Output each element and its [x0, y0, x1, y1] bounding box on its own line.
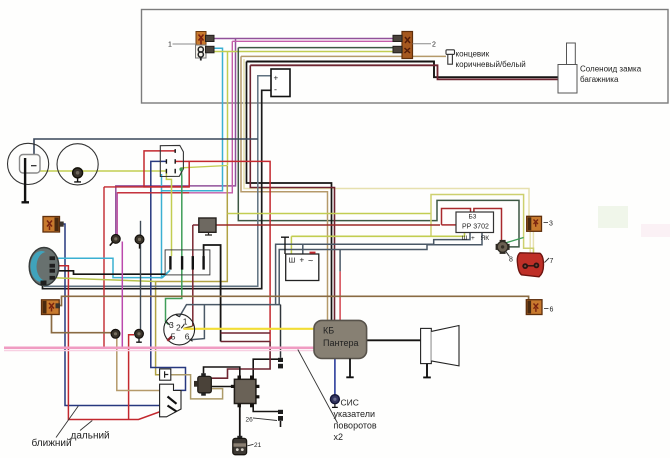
connector 3 label dash — [544, 222, 549, 224]
spark plug — [233, 436, 247, 455]
wire red drop into KB — [339, 271, 341, 320]
round connector 8 — [496, 240, 510, 254]
wire black KB to horn speaker — [367, 339, 421, 341]
wire black solenoid pair — [247, 62, 559, 78]
wire purple vertical drop — [116, 39, 236, 235]
svg-text:6: 6 — [185, 332, 190, 342]
wire maroon bundle drop — [250, 65, 334, 320]
wire red vertical to pink junction — [103, 187, 105, 348]
wire black CDI lower to connector 26 — [253, 404, 280, 412]
wire slate ignition terminal 6 — [190, 305, 204, 340]
wire pink thick turn signal feed — [4, 346, 314, 349]
wire cream pair b — [532, 231, 534, 253]
wire maroon rectifier box feed — [193, 224, 199, 226]
inline connector 26a — [278, 358, 283, 369]
wire yellow-green regulator loop — [431, 195, 534, 254]
wire black fuse mark 4 riser — [204, 245, 221, 342]
wire black bundle drop — [247, 62, 332, 321]
wire slate node2 to bulb 2 — [140, 244, 142, 330]
headlamp ground lead — [22, 158, 30, 202]
wire slate down to inline connector and CDI — [280, 305, 282, 358]
svg-text:СИС: СИС — [341, 398, 359, 408]
spark plug pointer — [248, 444, 254, 446]
wire slate branch to generator plus — [302, 244, 304, 254]
wire brown to indicator bulb 1 — [52, 315, 112, 333]
connector 26 pointer — [253, 418, 277, 421]
junction node 1 — [110, 235, 120, 246]
wire tan kill switch loop — [171, 375, 223, 399]
svg-text:КБ: КБ — [323, 326, 334, 336]
wire yellow generator Sh stub — [290, 236, 292, 254]
wire yellow generator Sh — [291, 233, 464, 237]
svg-text:~: ~ — [308, 256, 313, 266]
wire yellow-green drop to headlamp — [227, 52, 229, 166]
svg-text:багажника: багажника — [580, 75, 619, 84]
wire magenta node to pink junction — [121, 242, 123, 348]
fuse block box — [165, 250, 210, 275]
ignition switch circle — [164, 314, 195, 345]
svg-text:3: 3 — [169, 320, 174, 330]
svg-text:5: 5 — [171, 332, 176, 342]
right connector 2 body — [402, 32, 413, 59]
svg-text:Соленоид замка: Соленоид замка — [580, 65, 642, 74]
rectifier gray box — [199, 218, 216, 235]
pointer line to pink wire — [298, 350, 338, 424]
headlight plug shape — [160, 384, 181, 417]
connector 1 lead line — [173, 43, 197, 45]
wire cyan lower branch to fuse block — [162, 191, 171, 278]
wire blue KB to SIS lamp — [334, 359, 336, 396]
plug contact stroke 1 — [168, 397, 177, 404]
svg-text:коричневый/белый: коричневый/белый — [456, 60, 526, 69]
wire black stub below connector 26 — [280, 421, 282, 427]
wire gray battery positive — [45, 76, 272, 287]
junction node 2 — [135, 235, 144, 249]
wire pink drop to node1 — [117, 41, 232, 234]
wire black battery negative — [43, 90, 272, 288]
horn speaker rect — [421, 328, 432, 363]
orange connector top-left — [43, 217, 64, 233]
wire red regulator corner to B3 — [442, 209, 471, 225]
enclosure box (handlebar harness) — [142, 10, 669, 104]
svg-text:+: + — [274, 74, 279, 83]
wire black coil top feed — [204, 367, 240, 379]
connector 2 pins — [393, 35, 402, 41]
wire slate regulator Ya run — [276, 233, 470, 305]
inline connector 26b — [278, 410, 283, 421]
svg-text:ЯК: ЯК — [481, 235, 490, 242]
svg-text:ближний: ближний — [32, 437, 72, 449]
generator red stub — [310, 252, 316, 254]
wire slate branch to KB — [339, 250, 341, 272]
wire navy low beam — [64, 224, 160, 406]
wire black CDI top feed — [253, 359, 280, 379]
wire yellow-green headlamp run — [40, 170, 166, 172]
regulator pin labels — [462, 235, 490, 242]
svg-text:Б3: Б3 — [469, 214, 477, 221]
wire black from headlamp shell — [53, 271, 165, 274]
orange connector 3 — [527, 216, 542, 231]
parking lamp bulb — [73, 168, 83, 182]
fuse mark 4 — [202, 256, 204, 270]
wire dark slate to headlight bulb — [34, 139, 258, 156]
wire navy dimmer feed — [151, 161, 186, 390]
scan artifact tint 2 — [641, 224, 670, 237]
svg-text:8: 8 — [509, 257, 513, 264]
wire pale yellow vertical to mustard run — [156, 166, 228, 375]
wire red into dimmer right — [175, 160, 189, 162]
connector 6 label dash — [544, 308, 549, 310]
indicator bulb 2 — [135, 329, 144, 342]
component 7 pointer — [545, 258, 550, 263]
wire cyan from headlamp shell — [53, 258, 170, 277]
connector 8 pointer — [506, 251, 510, 256]
generator ground tick — [281, 237, 289, 254]
horn ground — [423, 364, 431, 378]
KB Pantera control unit — [314, 320, 367, 358]
plug contact stroke 2 — [168, 406, 177, 412]
indicator bulb 1 — [111, 329, 120, 338]
wire red branch to indicator bulb — [129, 335, 134, 420]
wire maroon solenoid — [250, 65, 558, 79]
kill switch small box — [160, 369, 171, 380]
headlamp shell — [29, 248, 59, 286]
regulator PP3702 box — [456, 212, 494, 233]
ignition terminal marks — [166, 315, 192, 342]
svg-text:указатели: указатели — [334, 409, 375, 419]
KB ground pin — [346, 359, 353, 378]
limit switch symbol — [446, 50, 455, 64]
wire yellow-green dimmer to fuse — [166, 173, 171, 256]
headlamp bulb symbol — [20, 155, 41, 174]
wire yellow ignition to KB — [183, 328, 314, 330]
svg-text:1: 1 — [183, 317, 188, 327]
wire yellow-green connector1 to connector2 — [214, 51, 394, 53]
wire green diagonal into connector 8 — [506, 238, 524, 243]
wire dark green (bundle to regulator and connector 8) — [238, 47, 393, 49]
svg-text:7: 7 — [550, 258, 554, 265]
SIS indicator lamp — [330, 395, 339, 408]
wire red B3 to connector 8 — [474, 209, 502, 242]
svg-text:-: - — [274, 85, 277, 95]
wire red into regulator left — [442, 224, 457, 226]
svg-text:РР 3702: РР 3702 — [462, 224, 489, 231]
trunk solenoid symbol — [558, 43, 577, 93]
svg-text:Пантера: Пантера — [323, 338, 358, 348]
wire brown long run to connector 6 — [59, 296, 529, 305]
wire maroon vertical through fuse mark — [192, 225, 194, 326]
orange connector bottom-left — [42, 300, 61, 315]
wire pink light echo — [4, 350, 314, 352]
wire red box around dimmer switch — [144, 151, 270, 342]
generator terminal box — [286, 254, 319, 281]
fuse mark 3 — [192, 256, 194, 270]
wire cyan from connector 1 — [162, 48, 223, 190]
wire maroon upper link — [221, 332, 271, 334]
svg-text:+: + — [471, 235, 475, 242]
parking lamp circle 2 — [57, 144, 98, 185]
battery box — [271, 69, 290, 97]
wire pink (bundle) — [232, 40, 393, 42]
wire slate node2 riser — [140, 221, 142, 235]
wire tan indicator bulb drop to plug — [117, 338, 160, 390]
CDI unit — [231, 376, 260, 408]
svg-text:1: 1 — [168, 42, 172, 49]
fuse mark 1 — [169, 256, 171, 270]
wire dark green long run — [238, 48, 519, 247]
wire olive link to terminal 2 — [183, 326, 192, 329]
svg-text:Ш: Ш — [289, 256, 296, 265]
wire tan drop to control unit — [241, 56, 328, 320]
left connector 1 body — [196, 32, 207, 61]
fuse mark 2 — [181, 256, 183, 270]
pointer blizhny — [56, 406, 78, 438]
svg-text:поворотов: поворотов — [334, 421, 377, 431]
wire yellow-green diagonal dimmer link — [182, 166, 228, 168]
svg-text:3: 3 — [549, 221, 553, 228]
wire yellow-green from headlamp shell — [53, 278, 156, 282]
wire maroon rectifier to regulator — [216, 224, 440, 226]
scan artifact tint — [598, 206, 628, 228]
ignition sensor component 7 — [517, 253, 543, 277]
svg-text:Ш: Ш — [462, 235, 468, 242]
ignition coil — [194, 373, 211, 395]
dimmer switch body — [160, 145, 183, 176]
svg-text:дальний: дальний — [71, 431, 110, 442]
headlamp circle 1 — [8, 143, 49, 184]
svg-text:2: 2 — [176, 323, 181, 333]
wire slate regulator plus run — [279, 233, 482, 305]
orange connector 6 — [526, 300, 542, 315]
connector 2 lead line — [413, 43, 432, 45]
wire red high beam — [52, 266, 166, 420]
wire green dimmer to ignition — [166, 170, 182, 325]
wire red low branch 1 — [104, 186, 189, 188]
svg-text:21: 21 — [254, 442, 262, 449]
wire red branch 2 to node — [117, 192, 189, 194]
wire tan (to limit switch and down) — [241, 55, 446, 57]
wire slate ignition terminal 1 run — [180, 305, 281, 317]
svg-text:х2: х2 — [334, 432, 344, 442]
wire yellow-green long run to regulator — [228, 213, 432, 215]
pointer dalny — [80, 421, 92, 431]
svg-text:26: 26 — [246, 417, 254, 424]
wire maroon coil feed — [211, 342, 270, 379]
connector 1 pins — [206, 35, 215, 41]
svg-text:концевик: концевик — [456, 50, 490, 59]
dimmer switch contacts — [166, 149, 183, 173]
wire purple (connector 1 to connector 2 top pins, with drop) — [214, 38, 394, 40]
wire cream pale (to connector 3 / generator) — [244, 59, 529, 217]
horn speaker bell — [431, 326, 459, 366]
wire black coil mid link — [211, 386, 234, 388]
svg-text:2: 2 — [432, 42, 436, 49]
wire black high tension to spark plug — [239, 404, 241, 439]
wire maroon link to coil drop — [221, 341, 271, 343]
svg-text:6: 6 — [550, 307, 554, 314]
wire cream pair below connector 3 — [529, 231, 531, 253]
svg-text:+: + — [300, 256, 305, 265]
